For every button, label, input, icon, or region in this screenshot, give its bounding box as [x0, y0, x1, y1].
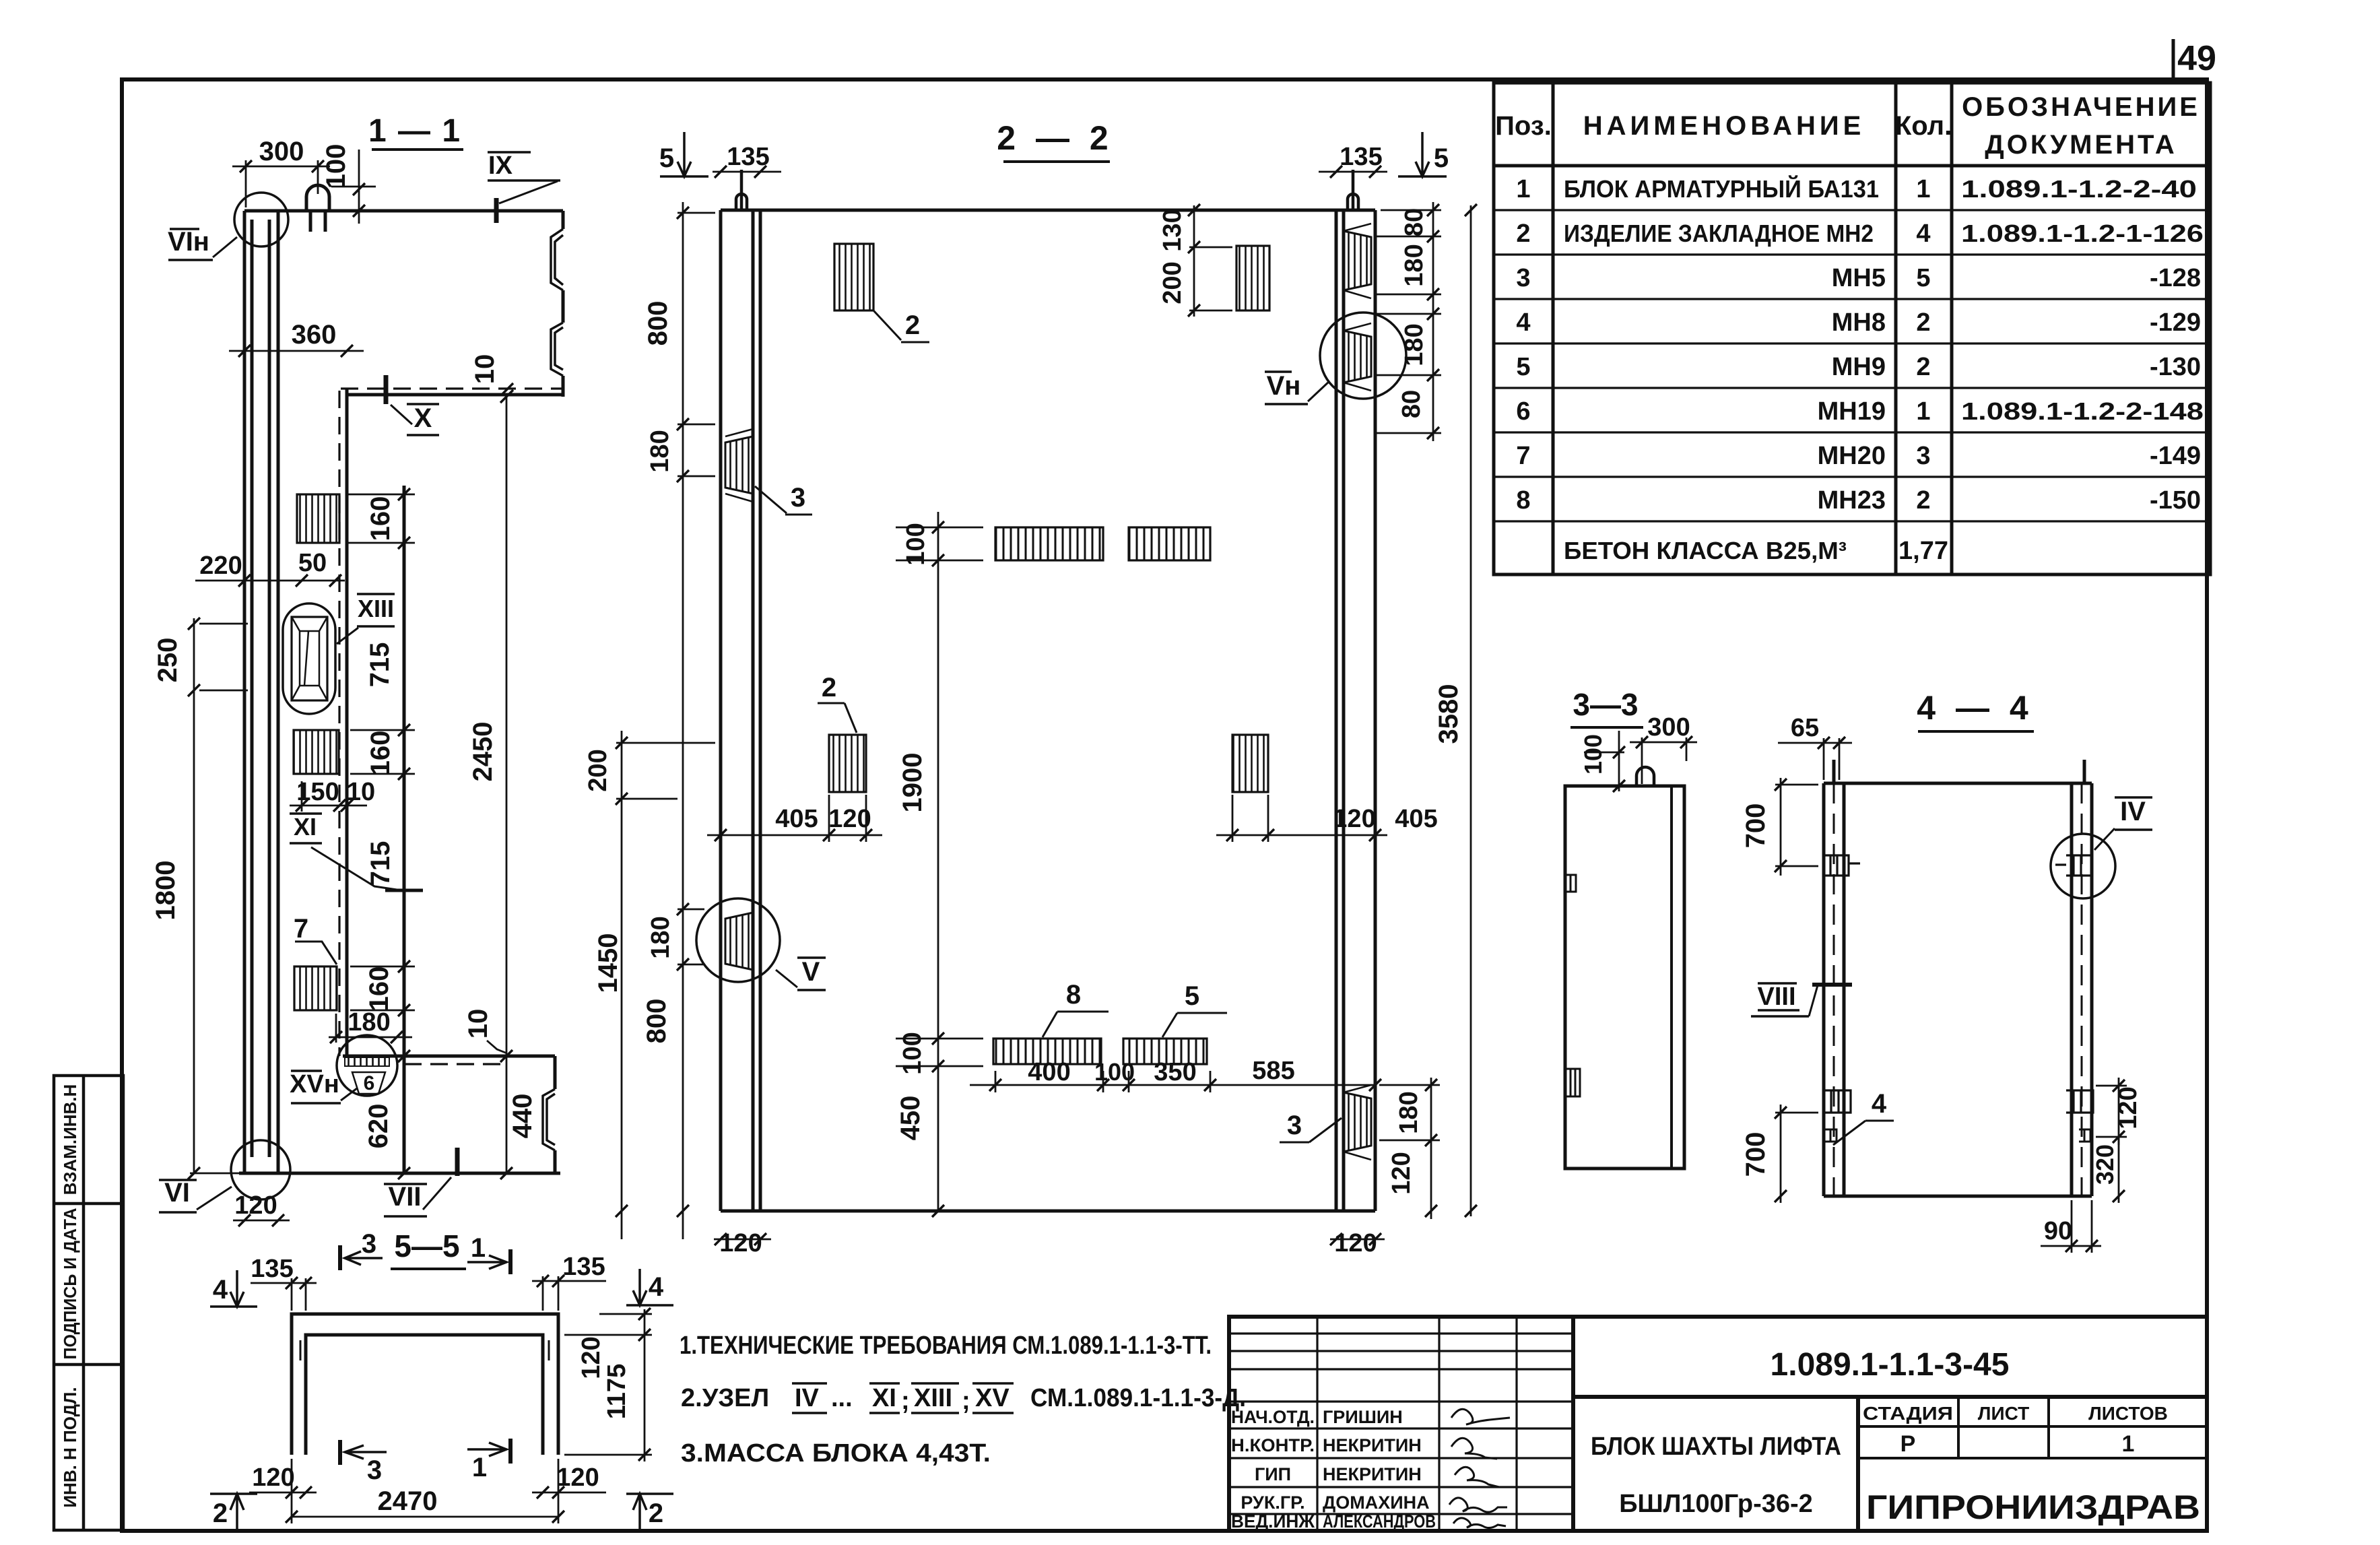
dim 135 top left	[713, 171, 781, 173]
svg-text:5: 5	[659, 143, 674, 173]
svg-text:1 — 1: 1 — 1	[368, 113, 461, 149]
svg-text:1.089.1-1.2-2-40: 1.089.1-1.2-2-40	[1961, 175, 2197, 203]
svg-text:XVн: XVн	[290, 1070, 339, 1098]
embed plate upper hatch (first)	[297, 494, 339, 543]
svg-text:VIн: VIн	[168, 227, 209, 257]
svg-text:VI: VI	[164, 1178, 190, 1208]
svg-text:2: 2	[1916, 308, 1930, 337]
svg-text:405: 405	[1395, 805, 1437, 833]
svg-text:;: ;	[901, 1387, 910, 1415]
svg-text:ВЗАМ.ИНВ.Н: ВЗАМ.ИНВ.Н	[60, 1084, 80, 1195]
slot XIII stadium	[283, 603, 335, 714]
lifting loop right	[1348, 170, 1358, 210]
wall insert hatch right top	[1344, 231, 1371, 290]
svg-text:160: 160	[366, 731, 395, 776]
svg-text:160: 160	[366, 496, 395, 541]
svg-text:МН5: МН5	[1832, 264, 1886, 292]
svg-text:1175: 1175	[603, 1364, 631, 1419]
svg-text:3: 3	[1516, 264, 1530, 292]
svg-text:100: 100	[1579, 734, 1607, 775]
dim 2470	[292, 1516, 558, 1518]
svg-text:450: 450	[896, 1096, 925, 1141]
keyway notch upper	[551, 229, 563, 290]
title block stadiya grid	[1858, 1397, 2207, 1458]
svg-text:715: 715	[365, 643, 395, 688]
dim 3580	[1470, 205, 1472, 1216]
svg-text:1: 1	[1916, 175, 1930, 203]
svg-text:360: 360	[292, 320, 337, 350]
svg-text:ЛИСТ: ЛИСТ	[1978, 1403, 2029, 1424]
svg-text:120: 120	[234, 1191, 277, 1220]
svg-text:2450: 2450	[468, 722, 498, 782]
svg-text:1900: 1900	[898, 753, 927, 813]
svg-text:620: 620	[364, 1104, 393, 1149]
wall insert hatch left lower	[725, 913, 753, 970]
dim 90	[2041, 1245, 2101, 1247]
svg-text:300: 300	[259, 137, 304, 166]
wall insert hatch right in circle	[1344, 331, 1371, 383]
svg-text:-129: -129	[2150, 308, 2201, 337]
dim 320 right	[2118, 1137, 2120, 1203]
svg-text:ПОДПИСЬ И ДАТА: ПОДПИСЬ И ДАТА	[60, 1208, 80, 1359]
svg-text:3.МАССА БЛОКА 4,43Т.: 3.МАССА БЛОКА 4,43Т.	[681, 1439, 991, 1468]
dim 120 below column	[233, 1220, 290, 1222]
left stamp column boxes	[54, 1076, 123, 1530]
callout IX	[494, 198, 499, 223]
svg-text:320: 320	[2091, 1144, 2119, 1185]
dims 220 50	[195, 580, 345, 582]
svg-text:5: 5	[1185, 981, 1199, 1011]
svg-text:МН19: МН19	[1818, 397, 1886, 426]
svg-text:VII: VII	[389, 1182, 422, 1212]
svg-text:3: 3	[1287, 1111, 1302, 1140]
svg-text:1.089.1-1.1-3-45: 1.089.1-1.1-3-45	[1771, 1347, 2010, 1383]
svg-text:10: 10	[470, 354, 500, 385]
lifting loop left	[736, 170, 747, 210]
svg-text:ГИП: ГИП	[1255, 1464, 1291, 1484]
dims 130 200	[1193, 205, 1195, 317]
keyway notch lower	[551, 323, 563, 376]
svg-text:3: 3	[1916, 442, 1930, 470]
svg-text:400: 400	[1028, 1058, 1070, 1086]
left dim lines	[682, 202, 684, 1239]
anchor strips bottom hatch 8 and 5	[993, 1039, 1101, 1064]
embed upper left	[1824, 855, 1860, 876]
svg-text:120: 120	[577, 1336, 605, 1379]
signature rows labels	[1231, 1407, 1436, 1532]
svg-text:440: 440	[508, 1094, 537, 1139]
U channel outline	[292, 1314, 558, 1455]
section 3-3 outline	[1565, 786, 1684, 1169]
svg-text:180: 180	[646, 430, 674, 472]
svg-text:АЛЕКСАНДРОВ: АЛЕКСАНДРОВ	[1323, 1511, 1436, 1532]
svg-text:7: 7	[1516, 442, 1530, 470]
section mark 3 bottom	[338, 1440, 342, 1465]
embed plate 7 upper hatch	[294, 730, 339, 774]
title block left grid	[1229, 1317, 1573, 1531]
dim 300	[232, 166, 330, 168]
svg-text:1: 1	[471, 1233, 486, 1263]
svg-text:160: 160	[364, 966, 394, 1012]
svg-text:ИЗДЕЛИЕ ЗАКЛАДНОЕ МН2: ИЗДЕЛИЕ ЗАКЛАДНОЕ МН2	[1564, 220, 1874, 247]
svg-text:80: 80	[1400, 208, 1428, 236]
lower embeds 4-4 right	[2066, 1090, 2093, 1113]
svg-text:2 — 2: 2 — 2	[997, 119, 1113, 157]
svg-text:МН9: МН9	[1832, 353, 1886, 381]
svg-text:3: 3	[367, 1455, 382, 1485]
dims 405 120 left	[707, 834, 882, 836]
svg-text:5: 5	[1916, 264, 1930, 292]
svg-text:700: 700	[1741, 803, 1771, 849]
svg-text:100: 100	[321, 144, 351, 189]
right bottom dims 180 120	[1430, 1078, 1432, 1219]
dims 120 1175 right	[644, 1309, 646, 1461]
bottom 120 dims	[714, 1239, 771, 1241]
svg-text:НЕКРИТИН: НЕКРИТИН	[1323, 1435, 1422, 1455]
svg-text:XI: XI	[294, 813, 317, 841]
svg-text:135: 135	[727, 143, 769, 171]
svg-text:180: 180	[647, 916, 675, 958]
dims 120 405 right	[1216, 834, 1387, 836]
svg-text:6: 6	[1516, 397, 1530, 426]
svg-text:4: 4	[649, 1272, 664, 1302]
dim 100	[1618, 731, 1620, 791]
svg-text:;: ;	[962, 1387, 970, 1415]
svg-text:4: 4	[1916, 220, 1930, 248]
svg-text:1800: 1800	[151, 861, 180, 921]
title block outer	[1229, 1317, 2207, 1531]
svg-text:ИНВ. Н ПОДЛ.: ИНВ. Н ПОДЛ.	[60, 1387, 80, 1507]
svg-text:3: 3	[362, 1229, 376, 1259]
notes line 2 overlines	[792, 1383, 1014, 1413]
dim 180 bottom	[329, 1037, 412, 1039]
svg-text:-150: -150	[2150, 486, 2201, 515]
svg-text:ДОМАХИНА: ДОМАХИНА	[1323, 1492, 1430, 1513]
svg-text:250: 250	[153, 638, 183, 683]
svg-text:135: 135	[562, 1253, 605, 1281]
dim 700 lower	[1780, 1105, 1782, 1203]
svg-text:МН8: МН8	[1832, 308, 1886, 337]
svg-text:10: 10	[463, 1009, 493, 1039]
svg-text:120: 120	[252, 1464, 294, 1492]
section 1-1 tick marks	[188, 160, 513, 1226]
svg-text:2470: 2470	[378, 1486, 438, 1516]
svg-text:130: 130	[1158, 209, 1187, 251]
svg-text:800: 800	[643, 301, 673, 346]
svg-text:180: 180	[1400, 244, 1428, 286]
svg-text:Vн: Vн	[1267, 371, 1301, 401]
svg-text:...: ...	[831, 1384, 853, 1412]
svg-text:МН23: МН23	[1818, 486, 1886, 515]
svg-text:-130: -130	[2150, 353, 2201, 381]
embed plate right lower hatch	[1232, 735, 1268, 792]
svg-text:4: 4	[1872, 1089, 1887, 1119]
svg-text:135: 135	[251, 1255, 293, 1283]
svg-text:300: 300	[1647, 713, 1690, 742]
svg-text:IX: IX	[488, 152, 513, 180]
svg-text:5: 5	[1434, 143, 1449, 173]
svg-text:БЕТОН КЛАССА В25,М³: БЕТОН КЛАССА В25,М³	[1564, 537, 1847, 564]
keyway notch bottom block	[543, 1089, 555, 1150]
svg-text:1: 1	[1516, 175, 1530, 203]
svg-text:100: 100	[1094, 1058, 1135, 1086]
embed plate 7 lower hatch	[294, 966, 337, 1010]
svg-text:3—3: 3—3	[1573, 687, 1638, 722]
svg-text:НЕКРИТИН: НЕКРИТИН	[1323, 1464, 1422, 1484]
svg-text:2: 2	[649, 1499, 663, 1528]
section 2-2 ticks	[616, 166, 1477, 1245]
dim 100 vertical	[358, 150, 360, 224]
dim 135 left top	[251, 1282, 317, 1284]
svg-text:ДОКУМЕНТА: ДОКУМЕНТА	[1985, 130, 2177, 160]
svg-text:2: 2	[1916, 486, 1930, 515]
svg-text:ГИПРОНИИЗДРАВ: ГИПРОНИИЗДРАВ	[1866, 1488, 2200, 1526]
svg-text:3580: 3580	[1434, 684, 1463, 744]
hidden center lines 4-4	[1834, 783, 2082, 1196]
top block outline	[244, 211, 564, 1173]
top ticks 4-4	[1832, 760, 1836, 783]
svg-text:350: 350	[1154, 1058, 1196, 1086]
svg-text:2: 2	[822, 673, 836, 702]
svg-text:Н.КОНТР.: Н.КОНТР.	[1231, 1435, 1315, 1455]
svg-text:8: 8	[1066, 980, 1081, 1010]
svg-text:49: 49	[2177, 39, 2216, 78]
right dims 80 180 180 80	[1432, 202, 1434, 441]
svg-text:1.ТЕХНИЧЕСКИЕ ТРЕБОВАНИЯ СМ.1.: 1.ТЕХНИЧЕСКИЕ ТРЕБОВАНИЯ СМ.1.089.1-1.1-…	[680, 1332, 1212, 1360]
embed plate 2 left lower hatch	[829, 735, 866, 792]
dim 120 bottom right	[532, 1492, 606, 1494]
svg-text:1: 1	[1916, 397, 1930, 426]
dim 135 right top	[532, 1280, 606, 1282]
section mark 3 top	[338, 1245, 342, 1270]
loop 3-3	[1637, 767, 1654, 786]
embed plate right middle hatch	[1236, 246, 1269, 310]
dim 120 right	[2118, 1078, 2120, 1145]
svg-text:2: 2	[213, 1499, 228, 1528]
svg-text:1: 1	[2122, 1431, 2135, 1457]
svg-text:МН20: МН20	[1818, 442, 1886, 470]
svg-text:XIII: XIII	[358, 595, 394, 622]
detail circle VIn	[234, 193, 288, 246]
svg-text:120: 120	[2114, 1086, 2142, 1129]
svg-text:1.089.1-1.2-2-148: 1.089.1-1.2-2-148	[1961, 397, 2204, 425]
signatures	[1449, 1409, 1510, 1527]
svg-text:6: 6	[364, 1072, 375, 1094]
svg-text:120: 120	[828, 805, 871, 833]
svg-text:БШЛ100Гр-36-2: БШЛ100Гр-36-2	[1619, 1490, 1813, 1518]
svg-text:200: 200	[1158, 261, 1187, 304]
svg-text:СМ.1.089.1-1.1-3-Д.: СМ.1.089.1-1.1-3-Д.	[1030, 1384, 1246, 1412]
dim 700 upper	[1780, 778, 1782, 876]
callout X	[384, 375, 389, 404]
svg-text:150: 150	[296, 778, 339, 806]
svg-text:СТАДИЯ: СТАДИЯ	[1863, 1403, 1953, 1424]
svg-text:2: 2	[1516, 220, 1530, 248]
svg-text:180: 180	[1400, 323, 1428, 366]
svg-text:4 — 4: 4 — 4	[1917, 689, 2033, 727]
svg-text:5: 5	[1516, 353, 1530, 381]
svg-text:120: 120	[1387, 1152, 1416, 1194]
parts table grid	[1494, 83, 2210, 574]
section 2-2 outline	[721, 210, 1375, 1211]
wall insert hatch right bottom (item 3)	[1344, 1092, 1371, 1152]
svg-text:Р: Р	[1900, 1431, 1916, 1457]
svg-text:-128: -128	[2150, 264, 2201, 292]
section mark 1 top	[508, 1249, 513, 1274]
detail circle XVn	[337, 1035, 397, 1096]
svg-text:8: 8	[1516, 486, 1530, 515]
section 3-3 4-4 ticks	[1613, 736, 2125, 1252]
svg-text:-149: -149	[2150, 442, 2201, 470]
svg-text:220: 220	[199, 552, 242, 580]
svg-text:ОБОЗНАЧЕНИЕ: ОБОЗНАЧЕНИЕ	[1962, 92, 2200, 122]
svg-text:2: 2	[905, 310, 920, 340]
svg-text:1,77: 1,77	[1898, 537, 1948, 565]
svg-text:5—5: 5—5	[394, 1228, 459, 1263]
svg-text:IV: IV	[795, 1384, 820, 1412]
svg-text:XV: XV	[975, 1384, 1010, 1412]
svg-text:800: 800	[642, 999, 671, 1044]
dim 360	[229, 350, 364, 352]
table rows text	[1516, 174, 2204, 565]
center dim line 1900	[937, 512, 939, 1211]
svg-text:405: 405	[775, 805, 818, 833]
svg-text:НАЧ.ОТД.: НАЧ.ОТД.	[1231, 1407, 1315, 1427]
svg-text:65: 65	[1791, 714, 1819, 742]
top block hidden edges	[339, 389, 563, 1056]
svg-text:1: 1	[472, 1453, 487, 1482]
detail circle Vn	[1320, 313, 1406, 399]
svg-text:РУК.ГР.: РУК.ГР.	[1241, 1492, 1304, 1513]
dim 120 bottom left	[249, 1492, 317, 1494]
svg-text:100: 100	[902, 523, 930, 565]
svg-text:2: 2	[1916, 353, 1930, 381]
svg-text:80: 80	[1397, 390, 1426, 418]
svg-text:XIII: XIII	[914, 1384, 952, 1412]
bottom right block	[343, 1056, 555, 1173]
svg-text:IV: IV	[2120, 797, 2146, 826]
svg-text:VIII: VIII	[1757, 983, 1795, 1011]
detail circle V	[696, 898, 780, 982]
svg-text:135: 135	[1340, 143, 1382, 171]
svg-text:1450: 1450	[593, 933, 623, 993]
lifting loop top	[306, 185, 329, 232]
svg-text:4: 4	[213, 1275, 228, 1305]
svg-text:НАИМЕНОВАНИЕ: НАИМЕНОВАНИЕ	[1583, 111, 1865, 141]
svg-text:180: 180	[1395, 1091, 1423, 1133]
svg-text:700: 700	[1741, 1132, 1771, 1177]
svg-text:4: 4	[1516, 308, 1530, 337]
dim 65	[1778, 742, 1852, 744]
svg-text:XI: XI	[872, 1384, 896, 1412]
svg-text:ГРИШИН: ГРИШИН	[1323, 1407, 1403, 1427]
svg-text:90: 90	[2044, 1217, 2072, 1245]
svg-text:120: 120	[1333, 805, 1375, 833]
bottom detail circle	[231, 1140, 290, 1199]
dim 300	[1630, 742, 1697, 744]
embed plate 2 top left hatch	[834, 244, 873, 310]
svg-text:715: 715	[366, 841, 395, 886]
svg-text:V: V	[802, 957, 820, 987]
section mark 1 bottom	[508, 1439, 513, 1464]
svg-text:3: 3	[791, 483, 805, 513]
svg-text:7: 7	[294, 914, 308, 944]
page number 49 tick	[2172, 39, 2175, 82]
lower embeds 4-4 left	[1824, 1090, 1851, 1113]
section 5-5 ticks	[286, 1275, 651, 1523]
dims 150 10	[290, 805, 367, 807]
embed upper right in circle IV	[2051, 834, 2115, 898]
svg-text:50: 50	[298, 549, 327, 577]
dim 135 top right	[1319, 171, 1387, 173]
svg-text:X: X	[414, 403, 432, 433]
wall insert hatch left (item 3)	[725, 436, 753, 494]
dim 160 upper ext	[350, 729, 415, 731]
svg-text:1.089.1-1.2-1-126: 1.089.1-1.2-1-126	[1961, 220, 2204, 247]
embed marks left edge	[1565, 875, 1576, 892]
section bottom line	[239, 1172, 560, 1175]
svg-text:585: 585	[1252, 1057, 1294, 1085]
dim 250 1800 line	[193, 618, 195, 1173]
svg-text:2.УЗЕЛ: 2.УЗЕЛ	[681, 1384, 769, 1412]
dims 400 100 350 585	[970, 1084, 1375, 1086]
svg-text:Поз.: Поз.	[1495, 111, 1552, 141]
svg-text:200: 200	[584, 749, 612, 791]
anchor strips top hatch	[995, 527, 1103, 560]
svg-text:БЛОК АРМАТУРНЫЙ БА131: БЛОК АРМАТУРНЫЙ БА131	[1564, 174, 1879, 203]
svg-text:180: 180	[348, 1008, 390, 1037]
wall column outline	[244, 211, 278, 1173]
svg-text:ВЕД.ИНЖ: ВЕД.ИНЖ	[1231, 1511, 1315, 1532]
svg-text:ЛИСТОВ: ЛИСТОВ	[2088, 1403, 2168, 1424]
dim 2450 line	[506, 397, 508, 1173]
svg-text:БЛОК ШАХТЫ ЛИФТА: БЛОК ШАХТЫ ЛИФТА	[1591, 1433, 1841, 1461]
svg-text:Кол.: Кол.	[1895, 111, 1952, 141]
section 4-4 outline	[1824, 783, 2092, 1196]
